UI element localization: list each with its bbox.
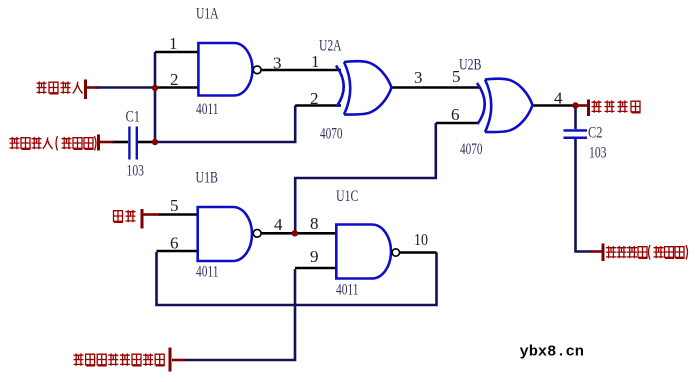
svg-text:U1C: U1C: [336, 188, 359, 205]
svg-text:4070: 4070: [460, 141, 483, 158]
svg-text:6: 6: [170, 234, 179, 253]
svg-text:U1B: U1B: [196, 170, 219, 187]
svg-text:4070: 4070: [320, 126, 343, 143]
svg-text:103: 103: [127, 163, 145, 180]
svg-text:9: 9: [310, 247, 319, 266]
svg-text:4011: 4011: [196, 264, 219, 281]
svg-text:U2A: U2A: [319, 38, 342, 55]
svg-text:5: 5: [170, 196, 179, 215]
svg-text:4: 4: [554, 89, 563, 108]
svg-text:6: 6: [451, 105, 460, 124]
svg-text:C1: C1: [126, 109, 141, 126]
svg-text:3: 3: [414, 68, 423, 87]
svg-text:U1A: U1A: [196, 6, 219, 23]
svg-text:U2B: U2B: [459, 57, 482, 74]
svg-text:4: 4: [274, 215, 283, 234]
svg-text:C2: C2: [588, 125, 603, 142]
svg-text:4011: 4011: [336, 282, 359, 299]
svg-text:ybx8.cn: ybx8.cn: [520, 344, 585, 361]
svg-text:4011: 4011: [196, 101, 219, 118]
svg-text:8: 8: [310, 214, 319, 233]
svg-text:5: 5: [452, 67, 461, 86]
svg-text:1: 1: [311, 52, 320, 71]
svg-text:2: 2: [170, 70, 179, 89]
svg-text:1: 1: [169, 34, 178, 53]
svg-text:10: 10: [414, 230, 428, 249]
svg-text:2: 2: [310, 89, 319, 108]
svg-text:3: 3: [273, 54, 282, 73]
svg-text:103: 103: [589, 145, 607, 162]
